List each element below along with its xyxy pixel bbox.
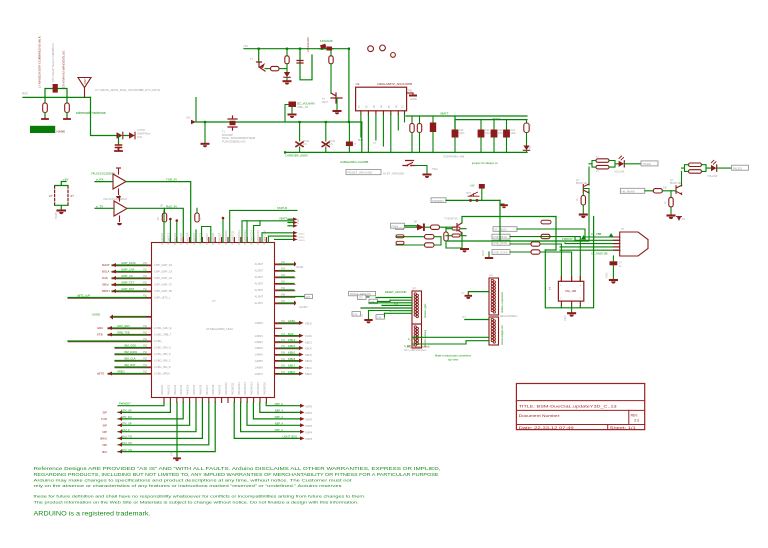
wire to box RXLED (717, 167, 732, 169)
ground under C6 (289, 114, 296, 116)
svg-text:P$1: P$1 (143, 270, 148, 272)
wire net row b (369, 310, 391, 312)
net arrow green 2 (609, 233, 614, 238)
net label box HWB (620, 188, 645, 193)
svg-text:BOLA: BOLA (102, 270, 110, 274)
U1 bottom-left fan wires (118, 402, 170, 412)
ground under C8 (610, 279, 617, 281)
wire to pushbutton (446, 199, 500, 201)
capacitor C6 tantalum (285, 105, 292, 123)
svg-text:AN?: AN? (83, 78, 87, 84)
U1 pin lines maroon (68, 265, 300, 375)
net label box USB_SCKD (492, 250, 510, 255)
svg-text:HB_RhWB: HB_RhWB (622, 189, 635, 193)
svg-text:M0U_UN: M0U_UN (121, 448, 132, 452)
svg-text:USBL_VM: USBL_VM (297, 106, 308, 109)
svg-text:XT_VBB: XT_VBB (591, 232, 602, 236)
svg-text:ARDUINO is a registered tradem: ARDUINO is a registered trademark. (34, 510, 151, 517)
wire XTAL ground vertical (176, 402, 178, 457)
wire GND arrows group (262, 233, 293, 243)
svg-text:PWRBDN: PWRBDN (432, 199, 444, 203)
ground stub mid (204, 122, 206, 143)
wire VBATT rail (406, 115, 527, 117)
mosfet T1 FDN340P (228, 116, 237, 130)
ground below varistors (58, 209, 66, 211)
svg-text:+5V: +5V (63, 178, 68, 182)
wire JP4 top row (465, 319, 489, 321)
svg-text:P$2: P$2 (143, 333, 148, 335)
svg-text:P$4: P$4 (281, 269, 286, 271)
svg-text:AvC: AvC (22, 92, 29, 96)
pushbutton S1 reset (403, 161, 415, 166)
svg-text:1/UBG_ISM_O: 1/UBG_ISM_O (154, 347, 171, 350)
svg-text:P$4: P$4 (281, 321, 286, 323)
svg-text:100n: 100n (498, 132, 504, 135)
svg-text:P$1: P$1 (408, 90, 413, 93)
wire ferrite top loop (45, 89, 67, 98)
wire 3V3 riser (195, 98, 197, 123)
svg-text:1/UBG_VREG: 1/UBG_VREG (154, 373, 170, 376)
svg-text:BMZ: BMZ (358, 139, 364, 142)
svg-text:JT5: JT5 (359, 297, 364, 300)
wire collector Q4 (588, 167, 590, 185)
svg-text:TSB_3V: TSB_3V (166, 178, 177, 182)
resistor R15 (510, 243, 531, 245)
header JP1 arduino gpio (412, 291, 422, 324)
resistor R6 (286, 49, 288, 56)
svg-text:PK10/ADC10: PK10/ADC10 (225, 230, 228, 245)
wire STATUS net (230, 210, 297, 242)
svg-text:YOLLOW: YOLLOW (614, 171, 625, 174)
svg-text:SIP: SIP (102, 411, 107, 415)
wire net row a (378, 300, 391, 301)
svg-text:BIU: BIU (102, 450, 107, 454)
svg-text:KBP1: KBP1 (306, 411, 313, 415)
resistor R20 (596, 165, 609, 169)
svg-text:rely on the absence or charact: rely on the absence or characteristics o… (34, 483, 342, 488)
mounting hole H1 (368, 46, 374, 52)
svg-text:The product information on the: The product information on the Web Site … (34, 499, 359, 504)
svg-text:PK4/ADC4: PK4/ADC4 (187, 232, 190, 245)
svg-text:P$2: P$2 (143, 365, 148, 367)
wire riser gpio (195, 230, 197, 243)
mounting hole H2 (380, 45, 386, 51)
svg-text:AGND: AGND (296, 266, 303, 269)
svg-text:arduino gpio: arduino gpio (423, 303, 427, 318)
wire segment (123, 135, 129, 137)
svg-text:KBP4: KBP4 (306, 430, 313, 434)
svg-text:P$4: P$4 (281, 262, 286, 264)
resistor R3 pullup (164, 208, 166, 213)
svg-text:K/BL8: K/BL8 (288, 357, 296, 361)
wire T4 collector to RESET net (462, 217, 556, 223)
svg-text:Z?: Z? (71, 194, 75, 198)
capacitor C13 (506, 120, 508, 130)
svg-text:GRU_ENC: GRU_ENC (117, 324, 130, 328)
wire JP3 ground L (468, 292, 489, 296)
svg-text:REV:: REV: (631, 414, 639, 418)
U4 bottom wires (360, 115, 362, 138)
svg-text:PA2/AD2: PA2/AD2 (174, 384, 177, 395)
transistor T3 (331, 93, 342, 103)
svg-text:Arduino may make changes to sp: Arduino may make changes to specificatio… (34, 478, 353, 483)
svg-text:KBP0: KBP0 (306, 404, 313, 408)
resistor R24 (653, 189, 662, 193)
wire riser tall left (163, 210, 165, 243)
net label box RXLED (732, 165, 749, 170)
svg-text:C8-8 MAXIU WIN/3G/GLUE: C8-8 MAXIU WIN/3G/GLUE (62, 51, 66, 88)
net label box DdT (305, 294, 313, 298)
svg-text:GWP_TXT: GWP_TXT (121, 281, 134, 285)
svg-text:1/UBG_GRB_T: 1/UBG_GRB_T (154, 334, 172, 337)
svg-text:PK16/ADC16: PK16/ADC16 (263, 230, 266, 245)
svg-text:+5V: +5V (243, 44, 248, 48)
svg-text:AGND3: AGND3 (299, 306, 308, 309)
net label box DFU (396, 225, 404, 230)
svg-text:jumper for always on: jumper for always on (471, 161, 498, 165)
svg-text:K/BL0: K/BL0 (288, 351, 296, 355)
svg-text:P$1: P$1 (143, 263, 148, 265)
ground under T3 (334, 110, 341, 112)
svg-text:VBATT: VBATT (279, 217, 288, 221)
svg-text:C? GB/US_MAIN_RAD_COV/DNBB_DY: C? GB/US_MAIN_RAD_COV/DNBB_DY/+ANTN (95, 88, 160, 92)
wires LED2 join (682, 165, 712, 172)
svg-text:L? MH2029-300Y COMB/MLEVE+BLK: L? MH2029-300Y COMB/MLEVE+BLK (38, 36, 42, 88)
net label box XT_VBUS (493, 227, 517, 232)
svg-text:GRB_TXE: GRB_TXE (117, 331, 130, 335)
varistor Z1 (54, 186, 56, 205)
svg-text:DUZ2: DUZ2 (305, 334, 312, 338)
svg-text:M0U_P: M0U_P (121, 428, 130, 432)
svg-text:100n: 100n (485, 132, 491, 135)
net label box PWRBDN (431, 198, 446, 203)
net label box small2 (376, 315, 385, 320)
wire USBVCC main (196, 121, 362, 123)
wire e_TX input (95, 207, 114, 209)
resistor R5 (265, 68, 271, 70)
svg-text:Z?: Z? (49, 194, 53, 198)
svg-text:M0U_UP: M0U_UP (121, 441, 132, 445)
svg-text:ISM_DATA: ISM_DATA (124, 350, 137, 354)
svg-text:1/AB5V: 1/AB5V (255, 360, 264, 363)
svg-text:KBP3: KBP3 (306, 424, 313, 428)
svg-text:KBP_4: KBP_4 (275, 409, 284, 413)
svg-text:PWRL5V: PWRL5V (562, 237, 573, 241)
wire crystal bottoms (561, 306, 580, 308)
capacitor C9 at +5V (479, 184, 485, 189)
capacitor C8 under USB (612, 256, 614, 261)
svg-text:DdT: DdT (306, 295, 311, 299)
svg-text:P$1: P$1 (143, 283, 148, 285)
svg-text:L5V: L5V (186, 117, 191, 120)
svg-text:GND2: GND2 (299, 237, 306, 239)
wire caps bank top bus (455, 116, 527, 130)
resistor R10 (526, 120, 528, 123)
resistor R9 vertical (419, 116, 421, 124)
junction dots (258, 48, 260, 50)
wire header4 rows (412, 337, 489, 344)
svg-text:OSC_16M: OSC_16M (565, 290, 576, 293)
U1 left pin stubs group2 (147, 328, 152, 374)
svg-text:uBTZ_cUP: uBTZ_cUP (77, 294, 90, 298)
svg-text:P$2: P$2 (143, 339, 148, 341)
svg-text:PA6/AD6: PA6/AD6 (199, 384, 202, 395)
U1 bottom pin stubs (164, 398, 266, 403)
wire riser with dot 2 (176, 222, 178, 243)
U1 right wires group1 (279, 263, 294, 265)
svg-text:1/UBG_GRU_E: 1/UBG_GRU_E (154, 327, 172, 330)
svg-text:NIP: NIP (102, 430, 107, 434)
net label box TXLED (641, 161, 658, 166)
svg-text:STN_UP: STN_UP (121, 422, 132, 426)
svg-text:TITLE: BSM-DueCiaL.updateY3D_: TITLE: BSM-DueCiaL.updateY3D_C..13 (519, 403, 617, 408)
svg-text:e_RX: e_RX (96, 178, 104, 182)
transistor Q5 (676, 185, 682, 194)
svg-text:P$4: P$4 (281, 372, 286, 374)
svg-text:GWP_DATA: GWP_DATA (121, 261, 136, 265)
svg-text:KTB: KTB (97, 333, 103, 337)
mounting hole H3 (391, 53, 396, 58)
svg-text:PK11/ADC11: PK11/ADC11 (231, 230, 234, 245)
svg-text:ALSMT: ALSMT (255, 263, 264, 266)
svg-text:1/AB1V: 1/AB1V (255, 335, 264, 338)
svg-text:NC?_ADC/conn/ders: NC?_ADC/conn/ders (404, 349, 427, 352)
ground under R1 (42, 118, 48, 120)
svg-text:KBC3: KBC3 (305, 340, 312, 344)
svg-text:Date: 22-33-12 07:49: Date: 22-33-12 07:49 (519, 426, 574, 430)
USB connector X1 (620, 232, 648, 256)
wire varistor top bus (55, 182, 68, 186)
wires JP1 rows (376, 297, 412, 299)
wire RxD_3V output (127, 208, 183, 242)
capacitor C_P5B (325, 122, 327, 141)
svg-text:A_TX: A_TX (408, 338, 415, 341)
svg-text:KBC4: KBC4 (305, 347, 312, 351)
ground below IC (174, 457, 180, 459)
svg-text:KBP_4: KBP_4 (275, 422, 284, 426)
svg-text:VREG: VREG (117, 370, 125, 374)
ground under R2 (64, 118, 70, 120)
net label box USB_MISO (492, 234, 510, 239)
svg-text:KBC5: KBC5 (305, 353, 312, 357)
diode D3 (284, 72, 290, 77)
svg-text:PA5/AD5: PA5/AD5 (193, 384, 196, 395)
svg-text:JT6: JT6 (353, 313, 358, 316)
ferrite bead L1 (53, 84, 58, 93)
diode D4 (523, 146, 529, 151)
svg-text:VBATT: VBATT (492, 117, 501, 121)
ground under Q5 (668, 214, 675, 216)
wire crystal feeds (561, 237, 580, 282)
svg-text:1/UBG_ISM_C: 1/UBG_ISM_C (154, 360, 171, 363)
header JP4 advance gpio (489, 317, 499, 345)
capacitor C12 (493, 120, 495, 130)
svg-text:PA8/AD8: PA8/AD8 (212, 384, 215, 395)
ground under Y1 (571, 306, 573, 313)
svg-text:KBP5: KBP5 (306, 437, 313, 441)
svg-text:GRU: GRU (97, 326, 103, 330)
net label box small4 (352, 312, 361, 317)
resistor R28 small pair left (396, 235, 404, 238)
svg-text:NIP: NIP (102, 443, 107, 447)
wire riser with dot 1 (169, 220, 171, 243)
U4 bottom pin stubs (361, 111, 405, 115)
svg-text:RESET_AROUND: RESET_AROUND (385, 290, 406, 294)
svg-text:PK9/ADC9: PK9/ADC9 (219, 232, 222, 245)
svg-text:ALSMT: ALSMT (255, 302, 264, 305)
wire e_RX input (95, 181, 113, 183)
resistor R22 (689, 163, 702, 167)
wire USB D+ (565, 242, 620, 245)
svg-text:PA12/AD12: PA12/AD12 (238, 382, 241, 395)
svg-text:ALSMT: ALSMT (255, 283, 264, 286)
U1 left pin stubs group1 (147, 265, 152, 298)
resistor R7 (330, 49, 332, 56)
svg-text:top view: top view (448, 357, 458, 361)
svg-text:C/TC8: C/TC8 (137, 128, 145, 132)
svg-text:KBP2: KBP2 (306, 418, 313, 422)
resistor R1 (44, 97, 46, 103)
ground under D3 (284, 80, 291, 82)
diode D6 M7 (405, 226, 418, 228)
svg-text:P$1: P$1 (143, 296, 148, 298)
svg-text:MEGA/2009aNn: MEGA/2009aNn (500, 315, 518, 318)
capacitor C10 (454, 120, 456, 130)
svg-text:P$2: P$2 (143, 359, 148, 361)
svg-text:ISM_RST: ISM_RST (124, 363, 136, 367)
wire crystal loop (545, 217, 593, 308)
svg-text:LIGHT_BOS: LIGHT_BOS (282, 435, 297, 439)
svg-text:SIP: SIP (102, 424, 107, 428)
svg-text:2N2?: 2N2? (322, 101, 329, 104)
svg-text:XTU: XTU (171, 451, 174, 456)
svg-text:JADES4-16V: JADES4-16V (307, 37, 310, 52)
svg-text:KBP_A: KBP_A (275, 428, 284, 432)
resistor R25 under Q5 (670, 191, 672, 198)
svg-text:Document Number:: Document Number: (519, 414, 561, 418)
wire riser with dot 3 (222, 219, 224, 243)
svg-text:AT-MEGA2560_16AU: AT-MEGA2560_16AU (206, 327, 233, 331)
svg-text:47u: 47u (329, 143, 334, 146)
svg-text:CABHAORV+CAUMB: CABHAORV+CAUMB (340, 160, 368, 164)
svg-text:MAXT: MAXT (102, 263, 110, 267)
svg-text:P$1: P$1 (143, 289, 148, 291)
svg-text:MRST: MRST (102, 289, 110, 293)
net arrow green 1 (581, 235, 586, 240)
svg-text:R?: R? (198, 216, 202, 220)
header JP3 arduino expansion (489, 278, 499, 315)
ground (115, 148, 122, 152)
svg-text:PGB?: PGB? (54, 212, 58, 219)
svg-text:P$2: P$2 (143, 346, 148, 348)
svg-text:GNDPWRIN/_WM: GNDPWRIN/_WM (443, 155, 464, 159)
U1 right pin stubs group1 (275, 264, 280, 303)
svg-text:USB_SCKD: USB_SCKD (493, 250, 508, 254)
wire TSB_3V output (126, 182, 191, 243)
svg-text:PWIN: PWIN (392, 224, 399, 228)
oscillator Y1 (558, 281, 583, 301)
svg-text:3.3V: 3.3V (297, 219, 300, 224)
power pad (green box) (30, 126, 55, 133)
net label box RESET_AROUND (346, 170, 381, 175)
svg-text:P$1: P$1 (143, 276, 148, 278)
svg-text:100n: 100n (511, 132, 517, 135)
resistor R11 (424, 226, 431, 228)
resistor R17 (541, 234, 550, 238)
diode D5 (404, 226, 417, 228)
svg-text:LMZH-MMTZ_ADU/UOPB: LMZH-MMTZ_ADU/UOPB (377, 82, 412, 86)
svg-text:1/UBG_ISM_D: 1/UBG_ISM_D (154, 353, 171, 356)
resistor R29 (541, 220, 551, 224)
svg-text:GWP_RST: GWP_RST (121, 287, 135, 291)
svg-text:STN_UP: STN_UP (121, 409, 132, 413)
svg-text:e_TX: e_TX (96, 204, 103, 208)
wire collector Q5 (681, 171, 683, 186)
svg-text:PA1/AD1: PA1/AD1 (167, 384, 170, 395)
U1 top pin stubs (164, 238, 266, 243)
svg-text:ISM_OSS: ISM_OSS (124, 344, 136, 348)
svg-text:47u: 47u (303, 143, 308, 146)
ground AGND arrow right (294, 301, 296, 306)
LED LD2 (711, 165, 716, 171)
svg-text:A0/B1: A0/B1 (288, 319, 296, 323)
svg-text:ALSMT: ALSMT (255, 276, 264, 279)
wire node to ground (499, 200, 501, 241)
U1 left wires group1 (112, 264, 147, 266)
svg-text:STN_DU: STN_DU (121, 415, 132, 419)
wire down to cap (118, 136, 120, 145)
svg-text:PE07: PE07 (482, 249, 485, 256)
resistor R2 (66, 97, 68, 103)
svg-text:CHIP_GWP_DA: CHIP_GWP_DA (154, 264, 173, 267)
svg-text:KBP_A: KBP_A (275, 402, 284, 406)
svg-text:P$4: P$4 (281, 359, 286, 361)
U3 ground stub (119, 216, 121, 222)
svg-text:M0U_TN: M0U_TN (121, 435, 132, 439)
resistor R8 vertical (411, 116, 413, 124)
LED LD1 (619, 161, 624, 167)
svg-text:BC847-2E: BC847-2E (576, 182, 587, 185)
wire to box TXLED (625, 163, 642, 165)
svg-text:1/UBG_: 1/UBG_ (154, 340, 164, 343)
svg-text:GND3: GND3 (299, 240, 306, 242)
diode D2 (129, 132, 135, 139)
svg-text:CHIP_GWP_RS: CHIP_GWP_RS (154, 290, 173, 293)
net label box RESET2 (369, 299, 378, 304)
svg-text:USB_MOSI: USB_MOSI (493, 241, 507, 245)
svg-text:PA11/AD11: PA11/AD11 (231, 382, 234, 395)
svg-text:P$2: P$2 (143, 372, 148, 374)
svg-text:P$2: P$2 (143, 352, 148, 354)
svg-text:P$4: P$4 (281, 346, 286, 348)
svg-text:GWP_CS: GWP_CS (121, 274, 133, 278)
svg-text:GND1: GND1 (299, 234, 306, 236)
svg-text:PA3/AD3: PA3/AD3 (180, 384, 183, 395)
microcontroller U1 ATMEGA2560 (152, 243, 275, 398)
svg-text:OdS: OdS (102, 276, 108, 280)
wire USB GND (560, 247, 620, 250)
svg-text:1/UBG_ISM_R: 1/UBG_ISM_R (154, 366, 171, 369)
svg-text:C8? MexP NexxX GMWB/XX: C8? MexP NexxX GMWB/XX (51, 43, 55, 82)
svg-text:JT4: JT4 (377, 316, 382, 319)
svg-text:CHIP_GWP_CS: CHIP_GWP_CS (154, 277, 173, 280)
wire MISO (510, 236, 580, 238)
wire HWB to Q5 (645, 190, 654, 192)
svg-text:GND: GND (606, 272, 609, 278)
svg-text:KBC0: KBC0 (305, 372, 312, 376)
svg-text:74LVC1G125DCK: 74LVC1G125DCK (103, 197, 127, 201)
IC U4 LMV358 (356, 87, 407, 111)
